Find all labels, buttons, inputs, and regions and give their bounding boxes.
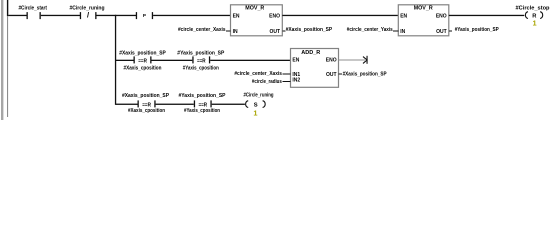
wire U1 ENO to U2 EN <box>282 15 398 16</box>
svg-text:EN: EN <box>400 14 407 20</box>
contact P (positive edge) <box>136 12 153 19</box>
svg-text:1: 1 <box>532 18 536 27</box>
svg-text:MOV_R: MOV_R <box>414 6 433 12</box>
contact compare ==R X rung2 <box>134 56 152 64</box>
svg-text:EN: EN <box>233 14 240 20</box>
svg-text:#Yaxis_cposition: #Yaxis_cposition <box>183 65 219 71</box>
wire stub IN1 U3 <box>282 74 290 75</box>
svg-text:OUT: OUT <box>269 29 280 35</box>
wire rail to contact1 <box>8 15 27 16</box>
svg-text:#Yaxis_position_SP: #Yaxis_position_SP <box>179 93 227 99</box>
contact compare ==R Y rung2 <box>192 56 210 64</box>
svg-text:P: P <box>143 13 146 18</box>
wire compare1 to compare2 rung3 <box>156 104 194 105</box>
wire contact2 to P contact <box>97 15 137 16</box>
svg-text:ENO: ENO <box>326 58 337 64</box>
open branch arrow <box>363 56 368 64</box>
coil R Circle_stop <box>525 12 542 20</box>
wire stub OUT U2 <box>449 31 452 32</box>
wire contact1 to contact2 <box>41 15 80 16</box>
svg-text:EN: EN <box>292 58 299 64</box>
wire compare2 to ADD_R EN <box>210 60 291 61</box>
contact Circle_runing (NC) <box>80 11 97 20</box>
wire compare1 to compare2 rung2 <box>152 60 193 61</box>
svg-text:/: / <box>87 11 89 20</box>
contact Circle_start (NO) <box>27 12 41 19</box>
svg-text:#circle_center_Xaxis: #circle_center_Xaxis <box>178 27 226 33</box>
svg-text:#Xaxis_position_SP: #Xaxis_position_SP <box>343 72 388 78</box>
svg-text:OUT: OUT <box>436 29 447 35</box>
svg-text:1: 1 <box>253 109 257 118</box>
svg-text:#Xaxis_position_SP: #Xaxis_position_SP <box>286 27 333 33</box>
svg-text:ENO: ENO <box>436 14 447 20</box>
power rail <box>7 0 8 117</box>
svg-text:ENO: ENO <box>269 14 280 20</box>
svg-text:==R: ==R <box>197 58 206 64</box>
svg-text:ADD_R: ADD_R <box>301 50 320 56</box>
svg-text:#Circle_runing: #Circle_runing <box>244 92 274 98</box>
wire stub IN U1 <box>226 31 231 32</box>
wire branch to compare1 rung2 <box>116 60 134 61</box>
svg-text:IN: IN <box>400 29 405 35</box>
svg-text:#Xaxis_cposition: #Xaxis_cposition <box>124 65 162 71</box>
coil S Circle_runing <box>246 101 266 109</box>
svg-text:#Xaxis_position_SP: #Xaxis_position_SP <box>119 50 166 56</box>
svg-text:#Circle_runing: #Circle_runing <box>70 6 105 12</box>
wire P contact to MOV_R U1 EN <box>153 15 231 16</box>
svg-text:#Circle_start: #Circle_start <box>18 6 47 12</box>
svg-text:IN: IN <box>233 29 238 35</box>
wire stub OUT U1 <box>282 31 285 32</box>
svg-text:#circle_center_Yaxis: #circle_center_Yaxis <box>347 27 393 33</box>
svg-text:#circle_radius: #circle_radius <box>252 79 282 85</box>
svg-text:IN2: IN2 <box>292 77 300 83</box>
wire ENO open branch (grey) <box>339 60 366 61</box>
wire branch to compare1 rung3 <box>116 104 138 105</box>
svg-text:MOV_R: MOV_R <box>245 6 264 12</box>
wire compare2 to S coil <box>212 104 245 105</box>
svg-text:#Yaxis_position_SP: #Yaxis_position_SP <box>455 27 500 33</box>
wire stub OUT U3 <box>339 74 342 75</box>
svg-text:==R: ==R <box>138 58 147 64</box>
wire stub IN U2 <box>393 31 398 32</box>
wire stub IN2 U3 <box>282 81 290 82</box>
svg-text:#Circle_stop: #Circle_stop <box>516 5 550 11</box>
block MOV_R U2 <box>398 5 449 36</box>
wire branch vertical <box>115 15 116 105</box>
svg-text:#circle_center_Xaxis: #circle_center_Xaxis <box>234 71 282 77</box>
svg-text:#Xaxis_position_SP: #Xaxis_position_SP <box>122 93 170 99</box>
svg-text:OUT: OUT <box>326 72 337 78</box>
contact compare ==R Y rung3 <box>194 100 212 108</box>
block ADD_R U3 <box>291 49 339 88</box>
contact compare ==R X rung3 <box>138 100 156 108</box>
wire U2 ENO to coil <box>449 15 525 16</box>
svg-text:#Yaxis_cposition: #Yaxis_cposition <box>184 108 220 114</box>
block MOV_R U1 <box>231 5 283 36</box>
svg-text:#Xaxis_cposition: #Xaxis_cposition <box>128 108 165 114</box>
svg-text:#Yaxis_position_SP: #Yaxis_position_SP <box>177 50 225 56</box>
